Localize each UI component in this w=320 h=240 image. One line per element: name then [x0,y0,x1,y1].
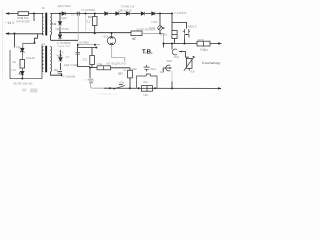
arrow right mid [218,42,222,44]
wire arrow to arc1 corner [179,52,189,58]
diodes top bus row [105,12,155,16]
wire x172 to resistor [172,22,175,43]
svg-text:ЮЗ: ЮЗ [203,48,208,52]
rheostat box [186,59,192,69]
diode VD4 vertical [58,35,62,39]
transformer T2 core [45,46,47,73]
junction x78 y44.5 [77,44,79,46]
svg-text:Юв: Юв [120,81,125,85]
junction bus x129 [129,87,131,89]
svg-text:VД3: VД3 [61,16,67,20]
wire mid-left bus [6,33,44,35]
junction x184 [184,43,186,45]
svg-text:Юа: Юа [98,62,103,66]
zener VD box [21,43,25,59]
svg-text:С2: С2 [71,14,75,17]
svg-text:КЛ-305-307 лн: КЛ-305-307 лн [98,92,117,96]
resistor R lower [90,56,95,65]
svg-text:Т.В.: Т.В. [142,48,153,55]
box two-section y66-70 [97,66,111,70]
rheostat arrow [184,56,194,70]
junction x90 y67.5 [89,67,91,69]
box left outline [10,45,42,79]
svg-text:КД247АМ: КД247АМ [56,27,70,31]
switch SB2 contacts [183,29,190,39]
junction x172 top [171,13,173,15]
svg-text:3 КВ: 3 КВ [149,26,155,30]
wire rheostat bottom [188,68,190,70]
wire R2b legs [91,48,93,68]
wire bottom bus [104,87,221,89]
junction x85 [85,13,87,15]
junction sec top [59,13,61,15]
wire left box drop [13,34,15,48]
svg-text:ВБ1: ВБ1 [151,67,157,71]
wire lamp tail gray [112,45,125,62]
svg-text:ХВ1: ХВ1 [174,55,180,59]
wire staircase to box [35,34,38,43]
svg-text:НЛ: НЛ [12,68,16,72]
diode VD5 vertical T2 [59,58,63,62]
wire junction fuse down stub [33,14,35,22]
wire relay row [164,43,220,45]
junction x95 y44.5 [94,44,96,46]
junction x172 mid [171,43,173,45]
junction box bottom [21,78,23,80]
svg-text:11: 11 [160,70,163,74]
fuse FU1 [18,12,29,16]
wire after box to x130 [111,68,131,71]
wire vert gray upper [171,71,173,82]
wire tube drop [171,44,173,50]
svg-text:КГ: КГ [133,37,137,41]
capacitor C1 plates [58,72,63,74]
junction x163 [163,43,165,45]
junction R2 top [94,13,96,15]
transformer T2 primary [42,47,43,72]
resistor x172 two-section [172,31,177,39]
wire sb2 contact link [185,34,187,44]
svg-text:VD2: VD2 [51,22,57,26]
wire arc2 feed [163,68,171,73]
diode VD6 [105,12,108,16]
wire vert to bottom bus [171,82,173,89]
wire mid cap col down [78,45,91,67]
diode VD2 vertical [58,22,62,26]
svg-text:VД: VД [16,45,20,49]
junction lamp top [111,32,113,34]
box top partial edge [23,42,35,44]
transformer T2 secondary [50,47,51,72]
wire top bus secondary to diodes [51,13,173,15]
fuse box mid bus [131,31,142,36]
svg-text:КД471БМ: КД471БМ [58,4,72,8]
LED symbol box [19,68,25,79]
wire mid bus gray right [142,33,164,43]
svg-text:VД4: VД4 [57,54,63,58]
svg-text:ХВ2: ХВ2 [166,59,172,63]
junction R2 bottom [94,32,96,34]
svg-text:2,2: 2,2 [83,58,88,62]
svg-text:К контактору: К контактору [202,61,221,65]
resistor two-section bottom [142,86,153,92]
wire y44.5 [78,44,100,46]
smudge a [22,89,27,92]
diode VD9 [141,12,144,16]
svg-text:КД171БМ: КД171БМ [64,63,78,67]
wire resistor130 to bus [129,78,131,89]
capacitor C2 top bus [77,12,79,16]
diode VD1 on top bus [62,12,65,16]
arrow into arc2 [169,67,172,69]
capacitor C4 plates [75,52,80,54]
arrow bottom right [218,87,222,89]
wire neon column [159,14,161,34]
svg-text:47,0х300в: 47,0х300в [81,8,95,12]
wire secondary bottom T1 [51,35,79,40]
junction x160 top [159,13,161,15]
svg-text:С4: С4 [66,55,70,59]
svg-text:ВП: ВП [119,72,123,76]
svg-text:ЛР90-300: ЛР90-300 [16,20,30,24]
svg-text:Тр: Тр [42,6,46,10]
wire C1 row [51,72,62,75]
relay box K1 [137,74,158,88]
arrow left mid [5,32,9,35]
wire y47.5 branch [78,47,96,49]
resistor two-section right [197,41,210,46]
transformer T1 secondary [50,14,51,36]
junction bus x155 [154,87,156,89]
svg-text:Юа: Юа [143,80,148,84]
svg-text:У-1930 В: У-1930 В [174,11,186,15]
resistor box left [20,60,25,69]
junction bus x110 [109,87,111,89]
arrow neon right [163,27,166,29]
wire corner x90 gray [90,83,104,88]
svg-text:Ю0а: Ю0а [161,33,168,37]
resistor R2 [93,17,98,26]
neon lamp circle [158,26,162,30]
svg-text:НL3: НL3 [103,34,109,38]
wire R2 legs [94,14,96,34]
switch bottom bus [113,85,125,90]
svg-text:КД247АМ: КД247АМ [58,44,71,48]
diode VD10 [152,12,155,16]
junction C1 [61,74,63,76]
junction bus x138 [138,87,140,89]
component x90 y80 [88,79,93,84]
svg-text:ЛБ-30 КОи-пБ: ЛБ-30 КОи-пБ [13,82,32,86]
diode VD7 [116,12,119,16]
transformer T1 primary [42,14,43,36]
wire y67.5 to box [90,67,97,69]
transformer T1 core [45,13,47,36]
wire diode col T2 [60,50,62,70]
svg-text:Юк: Юк [191,69,196,73]
junction bus x172 [171,87,173,89]
svg-text:КЛ70-ДЛТ14З: КЛ70-ДЛТ14З [107,62,126,66]
wire vert x90 [89,68,91,79]
scan border left [1,9,4,79]
diode VD8 [126,12,129,16]
resistor x130 [128,70,133,78]
svg-text:− 14 V: − 14 V [5,21,16,25]
wire C2 down [77,16,79,40]
wire diode col x60 [59,14,61,41]
junction blob y47.5 [95,47,97,49]
wire faint x86 [85,15,87,31]
svg-text:47,0х50в: 47,0х50в [63,75,76,79]
arc tube 1 [172,49,177,55]
wire top-right corner [172,14,187,29]
svg-text:2,2: 2,2 [86,19,91,23]
capacitor mid plates [144,65,150,72]
svg-text:НЛ4: НЛ4 [152,20,158,24]
wire top bus left [6,13,44,15]
arc tube 2 [166,65,171,71]
svg-text:ИВ: ИВ [144,93,148,97]
junction fuse right [33,13,35,15]
svg-text:VД6-VД10: VД6-VД10 [118,8,132,12]
junction box top [34,42,36,44]
arrow into arc1 [179,51,182,53]
svg-text:2а: 2а [13,60,17,64]
wire mid bus right [60,32,131,34]
arrow left top [5,12,9,15]
svg-text:ТМ140: ТМ140 [26,56,36,60]
junction mid-left [14,33,16,35]
junction neon bus [159,33,161,35]
lamp HL3 [107,33,115,45]
svg-text:МВ2 2: МВ2 2 [188,25,197,29]
wire stub below j163 [163,44,165,48]
smudge b [30,89,38,93]
junction mid bus start [59,32,61,34]
